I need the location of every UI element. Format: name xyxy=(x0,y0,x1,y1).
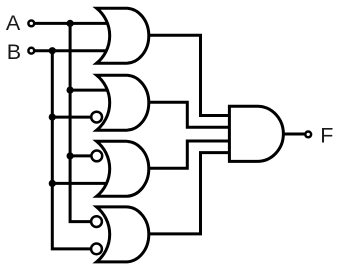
wire A lead xyxy=(34,22,115,25)
or-gate U2 (A OR NOT B) xyxy=(97,75,149,130)
wire A bus xyxy=(70,23,97,221)
output terminal F xyxy=(305,132,311,138)
inversion bubble gate2 lower input xyxy=(91,112,102,123)
or-gate U4 (NOT A OR NOT B) xyxy=(97,207,149,262)
or-gate U1 (A OR B) xyxy=(97,8,149,63)
inversion bubble gate4 upper input xyxy=(91,216,102,227)
wire gate2 input A xyxy=(70,89,115,92)
svg-text:F: F xyxy=(320,123,333,147)
wire B bus xyxy=(52,51,96,249)
wire gate3 input notA xyxy=(70,154,97,157)
wire gate3 input B xyxy=(52,182,115,185)
wire gate2 output to AND input 2 xyxy=(148,102,230,127)
or-gate U3 (NOT A OR B) xyxy=(97,141,149,196)
and-gate U5 (4-input) xyxy=(229,106,283,161)
svg-text:B: B xyxy=(7,40,21,64)
junction dot A bus gate2 xyxy=(67,87,74,94)
inversion bubble gate4 lower input xyxy=(91,244,102,255)
input terminal A xyxy=(28,21,34,27)
junction dot B row xyxy=(49,47,56,54)
junction dot B bus gate3 xyxy=(49,180,56,187)
inversion bubble gate3 upper input xyxy=(91,151,102,162)
wire gate4 output to AND input 4 xyxy=(148,153,230,234)
wire AND output to F terminal xyxy=(282,133,305,136)
wire gate2 input notB xyxy=(52,116,96,119)
svg-text:A: A xyxy=(6,11,21,35)
junction dot B bus gate2 xyxy=(49,114,56,121)
wire gate3 output to AND input 3 xyxy=(148,141,230,168)
input terminal B xyxy=(28,48,34,54)
wire gate1 output to AND input 1 xyxy=(148,35,230,115)
junction dot A row xyxy=(67,20,74,27)
junction dot A bus gate3 xyxy=(67,152,74,159)
wire B lead xyxy=(34,49,115,52)
